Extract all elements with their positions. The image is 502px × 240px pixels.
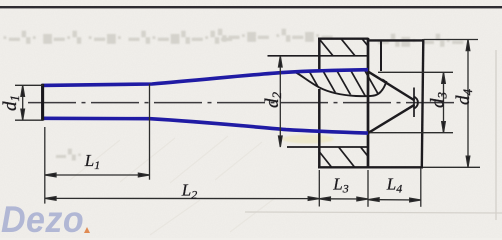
cone tip vertical tick [413,88,415,118]
dimension d4 extension lines [424,39,478,41]
flange ring right edge / cone base [367,38,370,168]
body right edge [422,39,424,167]
cone ball tip arc [414,97,418,109]
centerline (dash-dot axis) [28,102,456,104]
faint horizontal rule bottom [245,212,502,213]
sleeve left end cap [41,84,44,121]
dimension L2 line with arrows [45,197,319,201]
L dims left extension line [44,127,46,204]
faint scan watermark text row top [3,28,465,161]
flange ring left edge lower segment [318,89,321,168]
dimension d2 line with arrows [279,56,283,147]
dimension L4 line with arrows [368,198,421,202]
cone top edge [369,72,415,101]
dimension d3 extension lines [378,71,453,73]
L3 L4 extension line below flange right edge [367,170,369,207]
L2 L3 extension line below flange left edge [318,170,320,207]
flange bottom hatch [314,145,378,169]
flange ring left edge upper segment [318,38,321,71]
dimension d1 extension lines [15,84,43,86]
L4 right extension line [420,168,422,207]
local section break curve [296,73,387,97]
blue sleeve bottom profile line [42,118,368,133]
pale yellow scan smear [282,135,334,144]
body shoulder line [380,40,382,71]
dimension L3 line with arrows [319,197,368,201]
Dezo watermark [1,199,84,240]
blue sleeve top profile line [42,70,368,86]
spindle bore top line [268,55,369,57]
dimension d1 line with arrows [21,85,25,120]
top border line [0,6,502,8]
faint page edge vertical right [495,50,497,220]
L1 right extension line [149,84,151,180]
dimension L1 line with arrows [45,173,149,177]
flange top edge [318,38,369,40]
dimension d4 line with arrows [466,40,470,168]
Dezo orange mark [84,227,90,233]
cone bottom edge [369,105,415,133]
bottom edge (flange and body) [318,166,423,168]
local section hatch [293,67,395,99]
faint ghost diagonals background [70,136,275,235]
flange top hatch [316,35,377,57]
body top edge [368,39,424,41]
dimension d3 line with arrows [442,72,446,132]
spindle bore bottom line [287,146,368,148]
